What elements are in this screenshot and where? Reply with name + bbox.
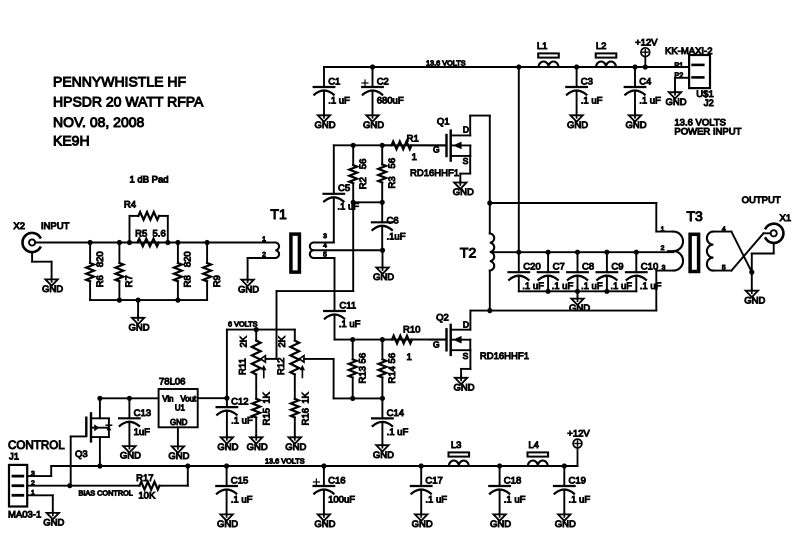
svg-text:D: D (463, 125, 469, 135)
power +12V bottom (567, 429, 590, 467)
svg-text:Vout: Vout (180, 394, 196, 403)
svg-text:OUTPUT: OUTPUT (742, 195, 781, 206)
svg-text:C15: C15 (231, 476, 248, 487)
svg-text:INPUT: INPUT (41, 221, 70, 232)
resistor R10 (382, 325, 446, 363)
wire Q1 drain to T2 (470, 116, 490, 203)
svg-text:+12V: +12V (635, 38, 658, 49)
svg-text:J2: J2 (704, 98, 714, 109)
svg-text:P1: P1 (674, 60, 683, 69)
svg-text:GND: GND (170, 418, 188, 427)
ground U1 (168, 444, 189, 462)
svg-text:C18: C18 (504, 476, 521, 487)
capacitor C17 (411, 463, 447, 530)
svg-text:R13: R13 (358, 366, 369, 383)
svg-text:.1 uF: .1 uF (639, 96, 661, 107)
svg-text:GND: GND (665, 97, 686, 108)
wire 6 VOLTS rail (227, 320, 295, 399)
inductor L4 (528, 440, 549, 466)
svg-text:4: 4 (323, 243, 327, 250)
wire pad ground bus (90, 298, 207, 303)
svg-text:R12: R12 (276, 358, 287, 375)
wire Q2 drain to bus (469, 311, 471, 330)
svg-text:T1: T1 (270, 206, 287, 222)
ground T1 pin4 (373, 248, 394, 283)
wire 13.6V top rail (324, 59, 689, 68)
capacitor C2 (362, 64, 404, 130)
svg-text:GND: GND (120, 451, 141, 462)
svg-text:3: 3 (323, 233, 327, 240)
wire R11 wiper to R2 node (277, 202, 354, 359)
svg-text:2: 2 (661, 245, 665, 252)
svg-text:GND: GND (373, 272, 394, 283)
svg-text:R5 5.6: R5 5.6 (135, 229, 166, 240)
svg-text:+12V: +12V (567, 429, 590, 440)
wire R13 R14 bottom node (350, 396, 385, 401)
ground J1 pin1 (27, 495, 64, 528)
svg-text:.1 uF: .1 uF (339, 319, 361, 330)
wire Q3 drain line (97, 396, 158, 401)
svg-text:1K: 1K (262, 391, 273, 403)
ground Q2 source (454, 350, 475, 393)
ground output cap bus (569, 291, 590, 314)
svg-text:C9: C9 (611, 261, 623, 272)
capacitor C11 (324, 258, 360, 340)
svg-text:GND: GND (168, 451, 189, 462)
svg-text:1uF: 1uF (134, 427, 151, 438)
wire R12 wiper to R13 node (334, 359, 353, 399)
svg-text:R7: R7 (124, 275, 135, 287)
wire R2 R3 bottom node (351, 200, 385, 205)
wire output bottom bus (470, 271, 673, 311)
capacitor C19 (554, 463, 590, 530)
svg-text:.1 uF: .1 uF (328, 96, 350, 107)
connector J2 KK-MAXI-2 (665, 46, 714, 109)
capacitor C10 (626, 250, 662, 293)
capacitor C4 (625, 64, 661, 130)
svg-text:L4: L4 (528, 440, 539, 451)
svg-text:.1 uF: .1 uF (231, 495, 253, 506)
svg-text:100uF: 100uF (328, 495, 355, 506)
svg-text:U1: U1 (175, 403, 185, 412)
svg-text:C19: C19 (569, 476, 586, 487)
capacitor C7 (538, 250, 574, 293)
svg-text:G: G (433, 340, 440, 350)
svg-text:BIAS CONTROL: BIAS CONTROL (79, 488, 133, 497)
svg-text:C6: C6 (387, 215, 399, 226)
svg-text:1: 1 (407, 352, 412, 363)
svg-text:R8: R8 (183, 275, 194, 287)
resistor R15 1K (247, 391, 273, 453)
transformer T1 (248, 206, 383, 272)
svg-text:R14: R14 (387, 366, 398, 383)
svg-text:Q2: Q2 (436, 313, 449, 324)
resistor R13 (349, 337, 369, 398)
svg-text:GND: GND (744, 295, 765, 306)
svg-text:R2: R2 (358, 177, 369, 189)
capacitor C5 (324, 145, 360, 242)
svg-text:5: 5 (323, 251, 327, 258)
svg-text:R11: R11 (238, 358, 249, 375)
svg-text:GND: GND (238, 284, 259, 295)
svg-text:S: S (463, 351, 469, 361)
svg-text:C11: C11 (339, 300, 356, 311)
svg-text:GND: GND (567, 120, 588, 131)
svg-text:C20: C20 (523, 261, 540, 272)
inductor L1 (537, 41, 559, 67)
svg-text:GND: GND (412, 519, 433, 530)
node 13.6V-to-T3 feed (516, 64, 521, 252)
svg-text:.1 uF: .1 uF (581, 96, 603, 107)
resistor R16 1K (285, 391, 311, 453)
wire P2 to ground (665, 78, 689, 108)
resistor R7 (116, 240, 136, 300)
title text block (53, 73, 204, 148)
wire J1 pin3 to rail (27, 466, 51, 476)
svg-text:1: 1 (412, 152, 417, 163)
svg-text:.1 uF: .1 uF (569, 495, 591, 506)
capacitor C6 (372, 202, 406, 250)
svg-text:R15: R15 (262, 408, 273, 425)
svg-text:Q1: Q1 (437, 117, 450, 128)
potentiometer R12 2K (276, 330, 334, 399)
svg-text:4: 4 (722, 226, 726, 233)
svg-text:R3: R3 (387, 176, 398, 188)
wire Q1 gate line (334, 144, 447, 146)
svg-text:R9: R9 (212, 275, 223, 287)
svg-text:MA03-1: MA03-1 (8, 510, 41, 521)
resistor R9 (203, 240, 223, 300)
ground pad bus (129, 300, 150, 333)
svg-text:KK-MAXI-2: KK-MAXI-2 (665, 46, 713, 57)
resistor R2 (349, 143, 369, 203)
svg-text:L3: L3 (451, 440, 462, 451)
svg-text:GND: GND (569, 303, 590, 314)
svg-text:CONTROL: CONTROL (8, 439, 65, 452)
wire Q2 gate line (335, 339, 447, 341)
svg-text:GND: GND (247, 442, 268, 453)
svg-text:GND: GND (453, 187, 474, 198)
svg-text:GND: GND (42, 284, 63, 295)
svg-text:GND: GND (217, 442, 238, 453)
svg-text:GND: GND (43, 518, 64, 529)
svg-text:R6: R6 (95, 275, 106, 287)
svg-text:6 VOLTS: 6 VOLTS (228, 320, 258, 329)
svg-text:L1: L1 (537, 41, 548, 52)
svg-text:C12: C12 (231, 397, 248, 408)
svg-text:C16: C16 (328, 476, 345, 487)
transistor Q3 (75, 398, 112, 466)
svg-text:S: S (463, 156, 469, 166)
svg-text:R4: R4 (124, 199, 136, 210)
capacitor C15 (216, 463, 252, 530)
svg-text:820: 820 (183, 251, 194, 267)
svg-text:.1 uF: .1 uF (231, 416, 253, 427)
svg-text:3: 3 (662, 265, 666, 272)
svg-text:.1 uF: .1 uF (425, 495, 447, 506)
resistor R1 (382, 133, 446, 163)
wire input line (35, 242, 269, 244)
svg-text:13.6 VOLTS: 13.6 VOLTS (426, 59, 466, 68)
capacitor C8 (567, 250, 603, 293)
svg-text:GND: GND (217, 519, 238, 530)
svg-text:D: D (463, 320, 469, 330)
svg-text:.1 uF: .1 uF (640, 281, 662, 292)
svg-text:R16: R16 (300, 408, 311, 425)
svg-text:PENNYWHISTLE HF: PENNYWHISTLE HF (53, 73, 186, 89)
svg-text:Q3: Q3 (75, 449, 88, 460)
svg-text:C7: C7 (553, 261, 565, 272)
svg-text:RD16HHF1: RD16HHF1 (410, 168, 459, 179)
svg-text:L2: L2 (596, 41, 607, 52)
svg-text:820: 820 (95, 251, 106, 267)
ground Q1 source (453, 156, 474, 198)
label 1 dB Pad (130, 175, 169, 186)
svg-text:R1: R1 (407, 133, 419, 144)
svg-text:HPSDR 20 WATT RFPA: HPSDR 20 WATT RFPA (53, 94, 204, 110)
svg-text:1: 1 (661, 226, 665, 233)
resistor R17 10K (136, 466, 188, 502)
capacitor C12 (217, 396, 253, 453)
wire 13.6V bottom rail (51, 457, 577, 469)
label 13.6 VOLTS POWER INPUT (674, 117, 741, 137)
ground T1 pin2 (238, 258, 259, 295)
svg-text:G: G (433, 145, 440, 155)
svg-text:GND: GND (129, 322, 150, 333)
svg-text:C13: C13 (134, 408, 151, 419)
wire J1 pin2 bias control (27, 483, 139, 497)
svg-text:680uF: 680uF (377, 96, 404, 107)
power +12V top (635, 38, 658, 70)
connector X1 output BNC (742, 195, 792, 291)
capacitor C13 (119, 396, 151, 462)
wire T2 top to T3 pin1 (490, 203, 674, 232)
connector J1 MA03-1 (8, 439, 65, 521)
svg-text:R10: R10 (403, 325, 420, 336)
svg-text:R17: R17 (136, 473, 153, 484)
svg-text:RD16HHF1: RD16HHF1 (480, 351, 529, 362)
svg-text:GND: GND (363, 120, 384, 131)
svg-text:GND: GND (373, 450, 394, 461)
potentiometer R11 2K (238, 330, 277, 399)
svg-text:POWER INPUT: POWER INPUT (674, 127, 741, 138)
svg-text:GND: GND (490, 519, 511, 530)
resistor R8 (174, 240, 194, 300)
resistor R4 (124, 199, 170, 245)
svg-text:56: 56 (358, 159, 369, 170)
ground output (744, 289, 765, 307)
svg-text:5: 5 (722, 265, 726, 272)
svg-text:56: 56 (387, 158, 398, 169)
svg-text:56: 56 (387, 353, 398, 364)
svg-text:GND: GND (625, 120, 646, 131)
capacitor C3 (566, 64, 602, 130)
svg-text:.1 uF: .1 uF (504, 495, 526, 506)
svg-text:T2: T2 (460, 244, 477, 260)
transformer T2 (460, 200, 494, 313)
svg-text:GND: GND (314, 519, 335, 530)
capacitor C20 (509, 252, 545, 292)
svg-text:X2: X2 (13, 221, 25, 232)
svg-text:GND: GND (555, 519, 576, 530)
svg-text:2K: 2K (277, 335, 288, 347)
svg-text:56: 56 (358, 353, 369, 364)
svg-text:X1: X1 (780, 213, 792, 224)
svg-text:1K: 1K (300, 391, 311, 403)
svg-text:Vin: Vin (162, 394, 173, 403)
svg-text:13.6 VOLTS: 13.6 VOLTS (265, 457, 305, 466)
resistor R3 (378, 143, 398, 203)
svg-text:C8: C8 (582, 261, 594, 272)
svg-text:.1uF: .1uF (387, 231, 406, 242)
resistor R6 (86, 240, 106, 300)
svg-text:C14: C14 (387, 408, 404, 419)
svg-text:C5: C5 (338, 183, 350, 194)
svg-text:.1 uF: .1 uF (387, 427, 409, 438)
inductor L3 (449, 440, 470, 466)
svg-text:KE9H: KE9H (53, 133, 90, 149)
svg-text:GND: GND (454, 382, 475, 393)
inductor L2 (596, 41, 617, 67)
svg-text:GND: GND (314, 120, 335, 131)
svg-text:C3: C3 (581, 77, 593, 88)
svg-text:C17: C17 (425, 476, 442, 487)
svg-text:J1: J1 (9, 452, 19, 463)
connector X2 input BNC (13, 221, 69, 295)
capacitor C1 (314, 67, 350, 131)
transistor Q2 RD16HHF1 (431, 313, 530, 362)
svg-text:1 dB Pad: 1 dB Pad (130, 175, 169, 186)
capacitor C16 (313, 463, 355, 530)
capacitor C18 (489, 463, 525, 530)
transistor Q1 RD16HHF1 (410, 117, 470, 180)
resistor R14 (379, 337, 399, 398)
svg-text:NOV. 08, 2008: NOV. 08, 2008 (53, 114, 145, 130)
wire T3 secondary crossover (731, 232, 770, 273)
svg-text:1: 1 (262, 236, 266, 243)
svg-text:10K: 10K (138, 491, 156, 502)
svg-text:C2: C2 (377, 77, 389, 88)
capacitor C14 (372, 398, 408, 460)
resistor R5 (130, 229, 168, 247)
svg-text:C1: C1 (328, 77, 340, 88)
svg-text:2: 2 (262, 251, 266, 258)
svg-text:GND: GND (285, 442, 306, 453)
wire T3 pin2 tap line (494, 250, 673, 255)
svg-text:T3: T3 (687, 208, 704, 224)
regulator U1 78L06 (159, 377, 227, 447)
capacitor C9 (597, 250, 633, 293)
svg-text:2K: 2K (238, 335, 249, 347)
svg-text:78L06: 78L06 (159, 377, 185, 388)
svg-text:C4: C4 (639, 77, 651, 88)
wire Q3 gate to control (71, 436, 87, 485)
wire output cap bus (519, 289, 637, 294)
transformer T3 (661, 208, 732, 272)
